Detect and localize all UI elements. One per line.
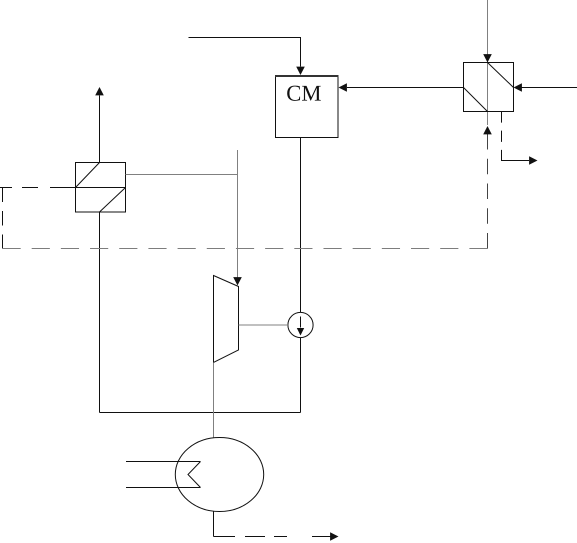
wire gray vertical into compressor with arrow down [237, 150, 239, 278]
wire gray compressor tap to circle [239, 324, 289, 326]
wire gray from HX1 right to vertical [126, 174, 239, 176]
wire bottom horizontal run [100, 412, 301, 414]
dashed control line left vertical [2, 188, 4, 249]
fuel inlet lines with chevron [126, 462, 201, 488]
compressor (trapezoid) [214, 276, 239, 363]
arrow into recuperator top [483, 54, 492, 62]
flow direction indicator circle [288, 312, 313, 337]
heat exchanger HX1 (left) [76, 163, 126, 213]
dashed control line up to recuperator with arrow [487, 134, 489, 249]
svg-text:CM: CM [286, 81, 321, 106]
wire right inlet with arrow into recuperator [522, 87, 577, 89]
wire gray vertical through recuperator from top [487, 0, 489, 125]
wire HX1 top outlet with arrow up [99, 96, 101, 163]
wire top feed horizontal into CM [189, 38, 301, 67]
wire left pipe down from heat exchanger [99, 212, 101, 413]
wire gray compressor down to combustor [213, 363, 215, 439]
mixer CM [275, 76, 339, 138]
wire CM outlet down to flow circle [300, 138, 302, 313]
combustion chamber (ellipse) [175, 438, 263, 512]
dashed control line from HX1 left [0, 187, 76, 189]
wire recuperator to CM with arrow [347, 87, 464, 89]
wire below circle down [300, 338, 302, 413]
dashed elbow outlet from recuperator bottom [501, 112, 503, 162]
arrow into CM top [296, 67, 305, 75]
wire combustor outlet down [213, 512, 215, 537]
recuperator HX2 (right box) [464, 63, 514, 112]
dashed outlet stream right with arrow [214, 536, 331, 538]
dashed control line long horizontal [3, 248, 488, 250]
